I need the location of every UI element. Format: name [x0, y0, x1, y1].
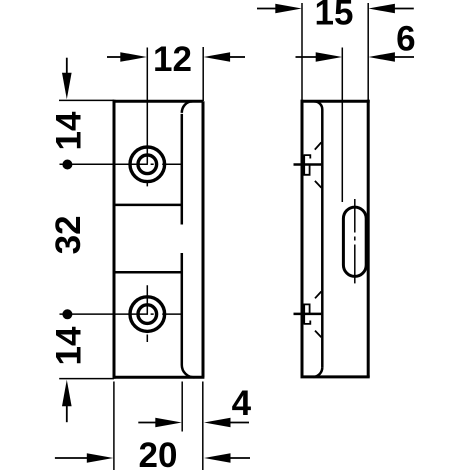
dimension 12 right tail — [230, 56, 245, 58]
side view plate fillet top — [314, 101, 322, 109]
upper hole horizontal center line — [60, 163, 182, 165]
lower hole outer circle — [130, 297, 165, 332]
dimension 14 upper dot — [62, 160, 72, 170]
lower hole horizontal center line — [60, 313, 183, 315]
svg-text:14: 14 — [50, 326, 89, 365]
dimension 12 left arrowhead — [120, 52, 147, 62]
dimension 14 upper arrow line — [66, 58, 68, 74]
upper hole side view chamfer tick bottom — [315, 181, 322, 188]
front bend line extension down — [181, 382, 183, 432]
front view bend fillet top — [182, 101, 193, 113]
side view right edge — [367, 100, 370, 378]
svg-text:6: 6 — [396, 20, 415, 59]
dimension 15 left arrowhead — [275, 4, 302, 14]
upper hole side view center line — [294, 163, 322, 166]
front right edge extension down — [202, 382, 204, 470]
dimension 4 right arrowhead — [204, 418, 231, 428]
dimension 4 left tail — [138, 422, 156, 424]
dimension 4 right tail — [230, 422, 249, 424]
dimension 15 right tail — [395, 8, 414, 10]
lower hole side view chamfer tick top — [315, 292, 321, 299]
svg-text:15: 15 — [315, 0, 354, 32]
dimension 6 left tail — [296, 56, 319, 58]
slot center line upper segment — [354, 199, 356, 233]
dimension 15 right arrowhead — [368, 4, 395, 14]
front view bottom edge — [113, 376, 205, 379]
dimension 14 upper arrowhead down — [62, 73, 72, 100]
slot center line dash — [354, 237, 356, 241]
upper hole side view pocket outline — [304, 155, 309, 175]
front view bend fillet bottom — [182, 365, 195, 377]
front view interior edge upper — [114, 204, 182, 207]
slot outline — [343, 207, 366, 276]
top edge extension left — [59, 99, 114, 101]
svg-text:14: 14 — [50, 111, 89, 150]
dimension 14 lower arrowhead up — [62, 380, 72, 407]
dimension 32 dot — [62, 309, 72, 319]
slot center line lower segment — [354, 245, 356, 284]
front view top edge — [113, 100, 204, 103]
dimension 15 left tail — [257, 8, 276, 10]
dimension 20 left tail — [55, 457, 88, 459]
dimension 12 left tail — [107, 56, 121, 58]
svg-text:20: 20 — [139, 436, 178, 470]
upper hole outer circle — [130, 147, 165, 182]
front view left edge — [113, 100, 116, 379]
dimension 20 left arrowhead — [87, 453, 114, 463]
dimension 14 lower arrow line — [66, 406, 68, 423]
slot position reference line — [341, 48, 343, 203]
dimension 12 right arrowhead — [204, 52, 231, 62]
side view plate inner line — [321, 110, 324, 368]
side view left extension up — [301, 3, 303, 101]
svg-text:12: 12 — [153, 40, 192, 79]
dimension 20 right tail — [230, 457, 250, 459]
upper hole side view step tick — [304, 155, 311, 158]
upper hole vertical center line — [146, 48, 148, 187]
svg-text:32: 32 — [49, 215, 88, 254]
lower hole side view step tick — [304, 321, 311, 324]
front right edge extension up — [202, 47, 204, 101]
front view outer right edge — [202, 101, 205, 377]
front left edge extension down — [113, 382, 115, 470]
dimension 6 right tail — [395, 56, 415, 58]
svg-text:4: 4 — [232, 384, 252, 423]
side view left edge — [301, 100, 304, 378]
lower hole vertical center line — [146, 285, 148, 342]
lower hole side view center line — [294, 313, 322, 316]
lower hole side view pocket outline — [304, 304, 309, 324]
side view bottom edge — [301, 375, 370, 378]
dimension 6 left arrowhead — [316, 52, 343, 62]
lower hole side view chamfer tick bottom — [315, 331, 321, 338]
front view interior edge lower — [114, 271, 182, 274]
side view right extension up — [367, 3, 369, 101]
upper hole side view chamfer tick top — [315, 142, 322, 149]
side view plate fillet bottom — [313, 367, 322, 377]
dimension 4 left arrowhead — [155, 418, 182, 428]
dimension 6 right arrowhead — [368, 52, 395, 62]
lower hole inner circle — [138, 305, 157, 324]
dimension 20 right arrowhead — [204, 453, 231, 463]
side view top edge — [301, 100, 370, 103]
front view bend tangent line lower — [181, 253, 184, 365]
upper hole inner circle — [138, 155, 157, 174]
bottom edge extension left — [59, 378, 114, 380]
front view bend tangent line upper — [181, 114, 184, 225]
